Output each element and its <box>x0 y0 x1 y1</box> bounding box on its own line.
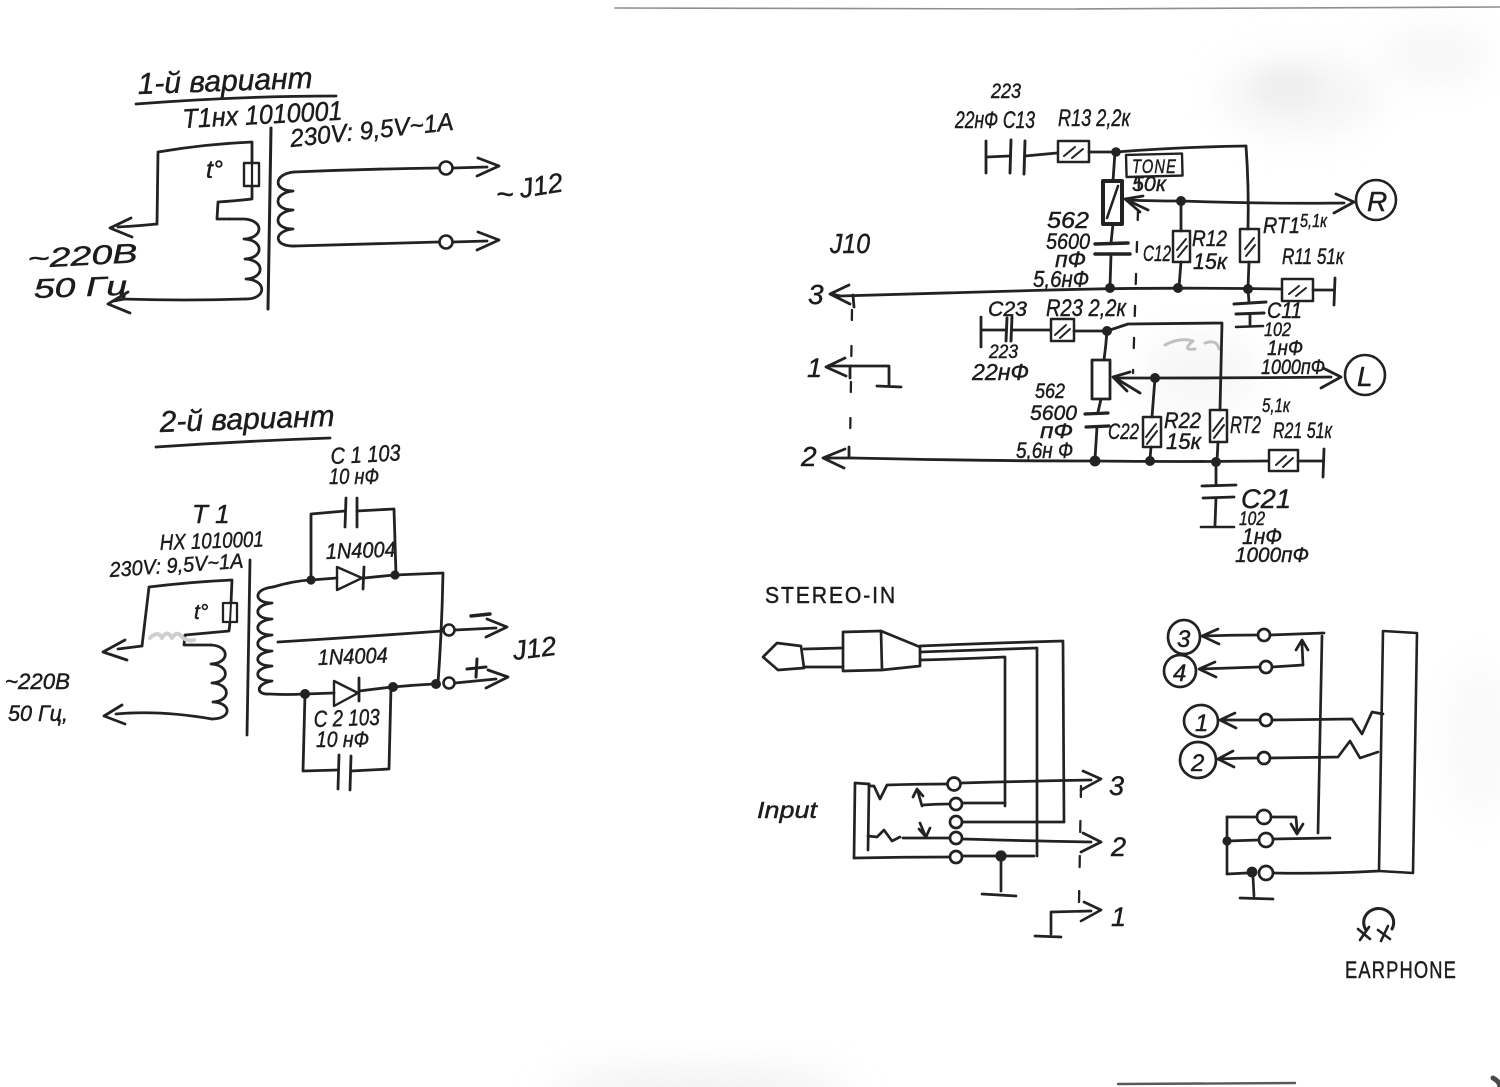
terminal circle plus <box>444 678 455 689</box>
capacitor C21 to chassis <box>1201 462 1236 527</box>
svg-text:1N4004: 1N4004 <box>325 537 396 564</box>
svg-text:С12: С12 <box>1143 241 1171 266</box>
capacitor C12 (5.6nF under pot) <box>1095 224 1130 287</box>
plus sign <box>467 659 486 677</box>
svg-text:1N4004: 1N4004 <box>317 643 388 670</box>
junction row B <box>1222 836 1231 845</box>
svg-text:J12: J12 <box>510 631 558 666</box>
junction wiper / R22 <box>1150 373 1160 383</box>
svg-text:1000пФ: 1000пФ <box>1235 544 1309 567</box>
row A wire and down arrow <box>1271 817 1303 834</box>
junction RT2/C21 on rail 2 <box>1211 457 1221 467</box>
contact circle pin4 row <box>1260 661 1272 673</box>
resistor R13 <box>1058 141 1114 162</box>
wire: junction down to pot L <box>1104 331 1107 360</box>
wire pin1 row with kink to connector <box>1272 712 1383 734</box>
arrow mains top <box>110 218 157 237</box>
contact circle pin1 row <box>1260 714 1272 726</box>
circled pin 1 <box>1184 705 1218 737</box>
paper shading smudges (decorative) <box>550 25 1500 1087</box>
junction anode D2 <box>300 689 310 699</box>
junction C12 on rail 3 <box>1105 283 1115 293</box>
dashed connector line <box>1079 786 1081 903</box>
contact circle row A <box>1257 810 1271 824</box>
pin 1 stub with sleeve bar <box>1035 902 1101 937</box>
socket row 1 lead with V kink <box>869 784 947 799</box>
svg-text:3: 3 <box>1109 771 1124 801</box>
wire row4 stub <box>903 837 949 840</box>
resistor RT2 <box>1210 410 1227 461</box>
wire: center tap to minus output <box>278 631 442 642</box>
junction wiper / R12 <box>1176 196 1186 206</box>
wire: fuse to winding <box>184 622 230 645</box>
contact circle row B <box>1259 833 1273 847</box>
svg-text:5,1к: 5,1к <box>1262 396 1291 417</box>
wire: to L output <box>1155 368 1341 388</box>
J10 pin 2 arrow <box>823 447 852 468</box>
mechanical coupling dashed line (R pot to L pot) <box>1133 178 1139 373</box>
wire 3 rail (J10 pin3 to R11) <box>840 288 1281 296</box>
junction anode D1 <box>306 575 315 584</box>
contact circle pin2 row <box>1258 752 1270 764</box>
wire: secondary top to J12 <box>294 168 438 172</box>
capacitor C1 loop <box>311 498 396 580</box>
svg-text:R13 2,2к: R13 2,2к <box>1058 105 1131 132</box>
contact circle row5 <box>950 851 962 863</box>
wire: D2 cathode to + terminal <box>393 684 434 687</box>
primary winding of T1 <box>230 219 262 299</box>
junction R12 on rail 3 <box>1173 283 1183 293</box>
svg-text:STEREO-IN: STEREO-IN <box>765 582 897 608</box>
svg-text:~220В: ~220В <box>27 238 138 274</box>
svg-text:5,1к: 5,1к <box>1300 211 1328 231</box>
svg-text:50 Гц,: 50 Гц, <box>8 701 68 726</box>
wire: junction to RT2 top <box>1107 323 1222 410</box>
thermal fuse on primary <box>223 603 237 622</box>
scan edge line bottom right <box>1118 1083 1295 1084</box>
terminal circle top <box>440 162 453 175</box>
diode D1 1N4004 upper <box>311 567 394 590</box>
capacitor C22 (5.6nF under pot L) <box>1085 399 1109 459</box>
diode D2 1N4004 lower <box>305 678 392 706</box>
switch arrow row3 down <box>919 823 930 837</box>
svg-text:223: 223 <box>990 80 1021 103</box>
svg-text:22нФ: 22нФ <box>971 359 1029 385</box>
potentiometer TONE 50k (L) <box>1092 360 1110 399</box>
earphone connector body rectangle <box>1379 631 1417 873</box>
svg-text:С22: С22 <box>1108 419 1139 444</box>
switch arm arrow up (4 to 3) <box>1296 640 1308 665</box>
jack plug body <box>843 631 920 671</box>
wire: primary left lead + arrow <box>103 640 142 660</box>
junction C22 on rail 2 <box>1090 456 1101 467</box>
output circle R <box>1356 180 1396 220</box>
capacitor C23 <box>981 317 1050 347</box>
terminal circle minus <box>444 625 455 636</box>
wire pin1 row <box>1220 713 1259 728</box>
svg-text:t°: t° <box>194 601 208 624</box>
resistor R12 <box>1173 201 1190 287</box>
ground below row C <box>1240 877 1273 899</box>
wire row5 to ground junction <box>962 855 1034 858</box>
svg-text:1: 1 <box>1195 710 1208 737</box>
svg-text:2-й вариант: 2-й вариант <box>158 400 335 439</box>
arrow to J12 top <box>453 158 499 176</box>
circled pin 2 <box>1180 742 1216 778</box>
svg-text:10 нФ: 10 нФ <box>329 464 379 489</box>
arrow minus output <box>455 619 507 637</box>
contact circle row2 <box>950 798 962 810</box>
TONE label box <box>1126 154 1183 178</box>
J10 pin 3 arrow <box>830 285 854 307</box>
arrow to J12 bottom <box>453 232 499 250</box>
contact circle pin3 row <box>1258 629 1270 641</box>
wire: primary bottom lead + arrow <box>104 705 212 724</box>
wire row3 to ring cable <box>962 821 1064 824</box>
wire pin4 row to switch arm <box>1272 665 1303 667</box>
core of T1 <box>268 128 271 309</box>
svg-text:НХ 1010001: НХ 1010001 <box>159 526 264 555</box>
svg-text:J10: J10 <box>829 228 870 259</box>
svg-text:~: ~ <box>496 178 514 211</box>
J10 pin 1 arrow and ground stub <box>826 358 851 378</box>
jack plug shaft <box>804 648 843 667</box>
junction cathode D1 <box>390 570 399 579</box>
svg-text:3: 3 <box>808 279 824 310</box>
wire: primary bottom lead <box>124 299 245 300</box>
svg-text:RT2: RT2 <box>1230 412 1261 439</box>
J10 connector dashed body line <box>850 310 852 448</box>
label RT1 5,1к <box>1263 211 1328 238</box>
arrow plus output <box>455 670 508 688</box>
wire row4 to output 2 <box>962 833 1101 852</box>
svg-text:10 нФ: 10 нФ <box>316 727 369 752</box>
cable: sleeve wire to ground row <box>920 648 1037 856</box>
svg-text:15к: 15к <box>1166 429 1203 454</box>
svg-text:50к: 50к <box>1132 173 1167 196</box>
wire: secondary bottom terminal <box>270 693 304 696</box>
resistor R23 <box>1051 319 1105 341</box>
wire: to R output <box>1181 194 1354 213</box>
jack plug tip <box>763 643 804 670</box>
row B wire to link <box>1273 838 1330 839</box>
junction R22 on rail 2 <box>1145 456 1155 466</box>
svg-text:Input: Input <box>757 797 819 823</box>
svg-text:R: R <box>1367 186 1387 217</box>
row B lead <box>1227 840 1259 841</box>
pot wiper arrow (R) <box>1125 196 1148 212</box>
svg-text:1000пФ: 1000пФ <box>1261 356 1325 379</box>
input socket body <box>854 783 869 858</box>
wire: D1 cathode to + rail <box>395 573 443 683</box>
potentiometer TONE 50k (R) <box>1103 181 1122 224</box>
svg-text:R12: R12 <box>1192 226 1227 251</box>
contact circle row3 <box>950 816 962 828</box>
pot wiper arrow (L) <box>1113 372 1140 393</box>
junction R13 / TONE / RT1 <box>1111 147 1121 157</box>
svg-text:~220В: ~220В <box>5 669 70 694</box>
bottom group left bus <box>1226 817 1229 874</box>
title "2-й вариант" <box>156 400 335 447</box>
svg-text:t°: t° <box>206 156 223 184</box>
wire: primary top <box>157 142 252 224</box>
core of T1 (variant 2) <box>247 560 250 735</box>
ground symbol <box>982 856 1016 896</box>
wire row1 to output 3 <box>961 771 1101 790</box>
svg-text:3: 3 <box>1177 626 1191 653</box>
svg-text:2: 2 <box>800 441 817 472</box>
svg-text:2: 2 <box>1190 750 1204 777</box>
svg-text:562: 562 <box>1035 380 1065 403</box>
arrow mains bottom <box>108 292 130 313</box>
title "1-й вариант" <box>136 62 336 104</box>
minus sign <box>471 614 490 616</box>
junction ground <box>995 850 1006 861</box>
wire: junction down to pot <box>1113 152 1115 181</box>
svg-text:RT1: RT1 <box>1263 213 1300 238</box>
row C wire to connector <box>1273 871 1379 873</box>
wire: secondary top terminal <box>273 580 310 587</box>
cable: tip wire to contact row 2 <box>920 657 1005 803</box>
scan edge line top <box>615 7 1500 9</box>
row C lead <box>1227 873 1247 874</box>
wire: wiper L to junction <box>1115 377 1153 380</box>
wire pin2 row with zigzag to connector <box>1270 741 1378 758</box>
contact circle row1 <box>948 778 961 791</box>
contact circle row C <box>1259 866 1273 880</box>
junction cathode D2 <box>388 682 398 692</box>
junction + rail <box>431 679 441 689</box>
circled pin 3 <box>1168 620 1200 654</box>
capacitor C2 loop <box>303 687 391 790</box>
svg-text:EARPHONE: EARPHONE <box>1345 957 1457 984</box>
resistor R21 <box>1269 449 1324 477</box>
socket row 4 lead with zigzag <box>868 830 900 841</box>
long link wire (row3 to row B) <box>1318 636 1322 833</box>
wire: junction to RT1 top corner <box>1116 146 1246 152</box>
secondary winding with center tap <box>258 587 273 694</box>
label ~ J12 <box>496 167 565 211</box>
svg-text:Т 1: Т 1 <box>192 499 230 529</box>
cable: ring wire to contact row 3 <box>920 641 1064 822</box>
svg-text:R11 51к: R11 51к <box>1282 244 1345 269</box>
svg-text:22нФ С13: 22нФ С13 <box>954 107 1035 134</box>
faint pencil scribble <box>1165 340 1219 350</box>
wire pin3 row to switch vertical <box>1270 633 1324 635</box>
socket bottom lead <box>854 857 949 858</box>
switch arrow row2 up <box>913 789 923 806</box>
wire pin4 row <box>1199 662 1259 677</box>
terminal circle bottom <box>440 236 453 249</box>
output circle L <box>1345 355 1385 395</box>
primary winding V2 <box>211 645 227 719</box>
resistor R22 <box>1143 378 1161 459</box>
row A lead <box>1227 816 1257 819</box>
svg-text:1: 1 <box>1111 902 1126 932</box>
wire: primary loop top <box>142 580 232 646</box>
wire pin3 row <box>1202 629 1257 644</box>
svg-text:R21 51к: R21 51к <box>1273 418 1333 443</box>
junction RT1/C11 on rail 3 <box>1243 284 1253 294</box>
headphone icon <box>1364 909 1394 930</box>
contact circle row4 <box>950 832 962 844</box>
circled pin 4 <box>1164 655 1196 687</box>
svg-text:L: L <box>1357 361 1373 392</box>
svg-text:15к: 15к <box>1193 249 1229 274</box>
svg-text:1: 1 <box>807 353 822 383</box>
resistor RT1 (vertical from top rail) <box>1240 146 1259 288</box>
wire: fuse to primary winding <box>217 186 252 219</box>
capacitor C13 <box>986 140 1057 174</box>
wire: secondary bottom to J12 <box>295 242 438 246</box>
wire 2 rail (J10 pin2 to R21) <box>852 458 1268 462</box>
label R12 15к <box>1192 226 1229 274</box>
junction R23 / pot L / RT2 <box>1102 326 1112 336</box>
label R22 15к <box>1164 408 1203 454</box>
faint pencil smudge <box>150 634 194 641</box>
wire row2 to tip cable <box>962 803 1005 806</box>
svg-text:4: 4 <box>1173 660 1186 687</box>
wire: pin1 to chassis <box>851 366 901 387</box>
wire pin2 row <box>1218 751 1257 767</box>
capacitor C11 to chassis <box>1234 289 1266 327</box>
junction row C (ground) <box>1247 867 1258 878</box>
secondary winding of T1 <box>278 172 295 246</box>
wire row2 stub <box>923 804 949 805</box>
svg-text:5,6н Ф: 5,6н Ф <box>1016 438 1073 463</box>
thermal fuse on T1 primary <box>244 163 259 186</box>
resistor R11 <box>1282 278 1335 305</box>
wire: wiper to R12 junction <box>1127 200 1179 201</box>
svg-text:2: 2 <box>1110 832 1126 862</box>
